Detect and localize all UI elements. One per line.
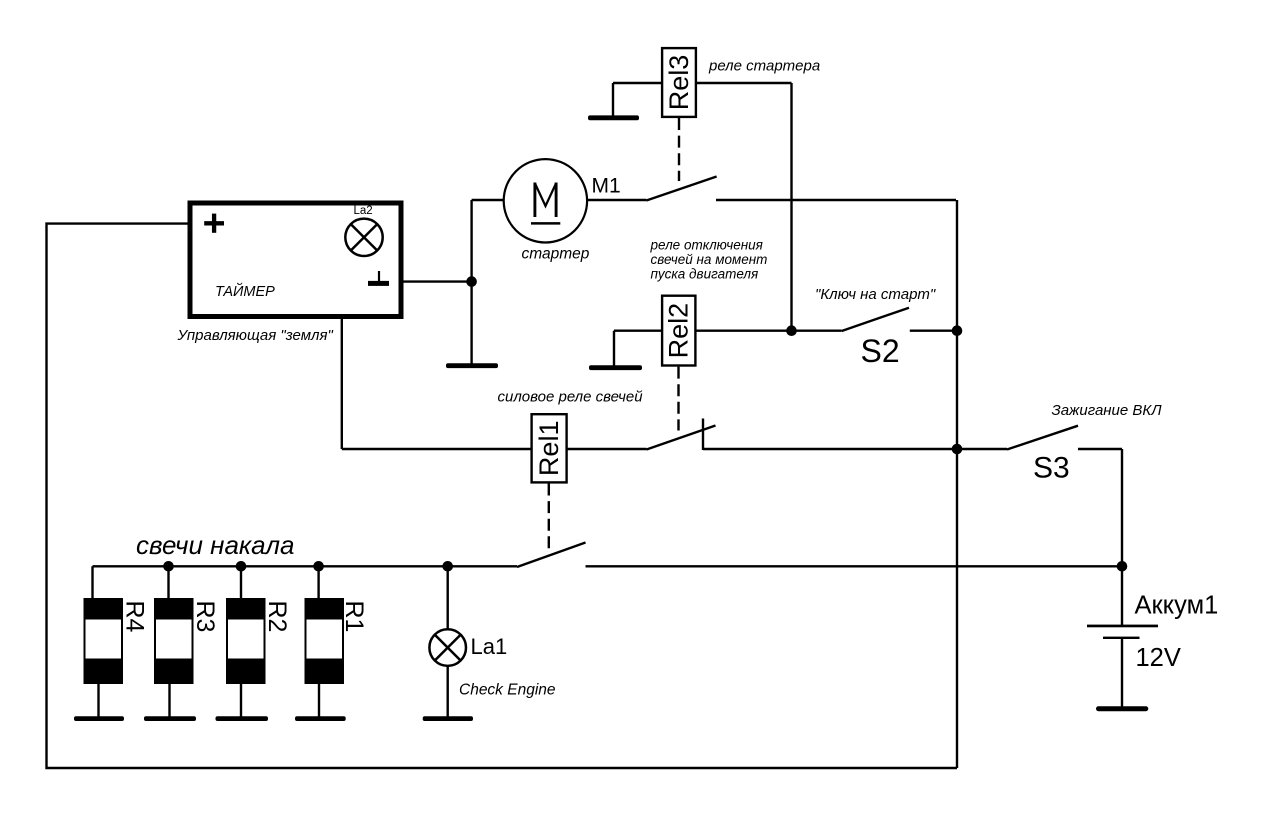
svg-text:ТАЙМЕР: ТАЙМЕР (215, 282, 275, 300)
svg-text:Управляющая "земля": Управляющая "земля" (177, 327, 334, 344)
svg-text:Аккум1: Аккум1 (1135, 592, 1219, 620)
svg-text:свечей на момент: свечей на момент (651, 252, 768, 267)
svg-text:Зажигание ВКЛ: Зажигание ВКЛ (1052, 402, 1163, 419)
svg-text:свечи накала: свечи накала (136, 530, 294, 560)
svg-text:R4: R4 (121, 601, 149, 633)
svg-text:La2: La2 (354, 205, 373, 217)
svg-text:"Ключ на старт": "Ключ на старт" (815, 286, 936, 303)
svg-text:S2: S2 (861, 333, 900, 369)
svg-text:R1: R1 (340, 601, 368, 633)
svg-text:La1: La1 (471, 634, 508, 659)
svg-text:реле отключения: реле отключения (650, 238, 763, 253)
svg-text:S3: S3 (1033, 452, 1070, 485)
svg-text:M1: M1 (592, 175, 621, 198)
svg-text:стартер: стартер (522, 246, 590, 263)
svg-text:Check Engine: Check Engine (459, 682, 556, 699)
svg-text:12V: 12V (1136, 644, 1181, 672)
svg-text:силовое реле свечей: силовое реле свечей (498, 389, 644, 406)
svg-text:реле стартера: реле стартера (708, 58, 820, 75)
svg-text:Rel1: Rel1 (534, 421, 564, 477)
svg-text:R2: R2 (263, 601, 291, 633)
svg-text:Rel3: Rel3 (664, 55, 694, 111)
svg-text:R3: R3 (191, 601, 219, 633)
svg-text:Rel2: Rel2 (664, 303, 694, 359)
svg-text:пуска двигателя: пуска двигателя (651, 267, 759, 282)
